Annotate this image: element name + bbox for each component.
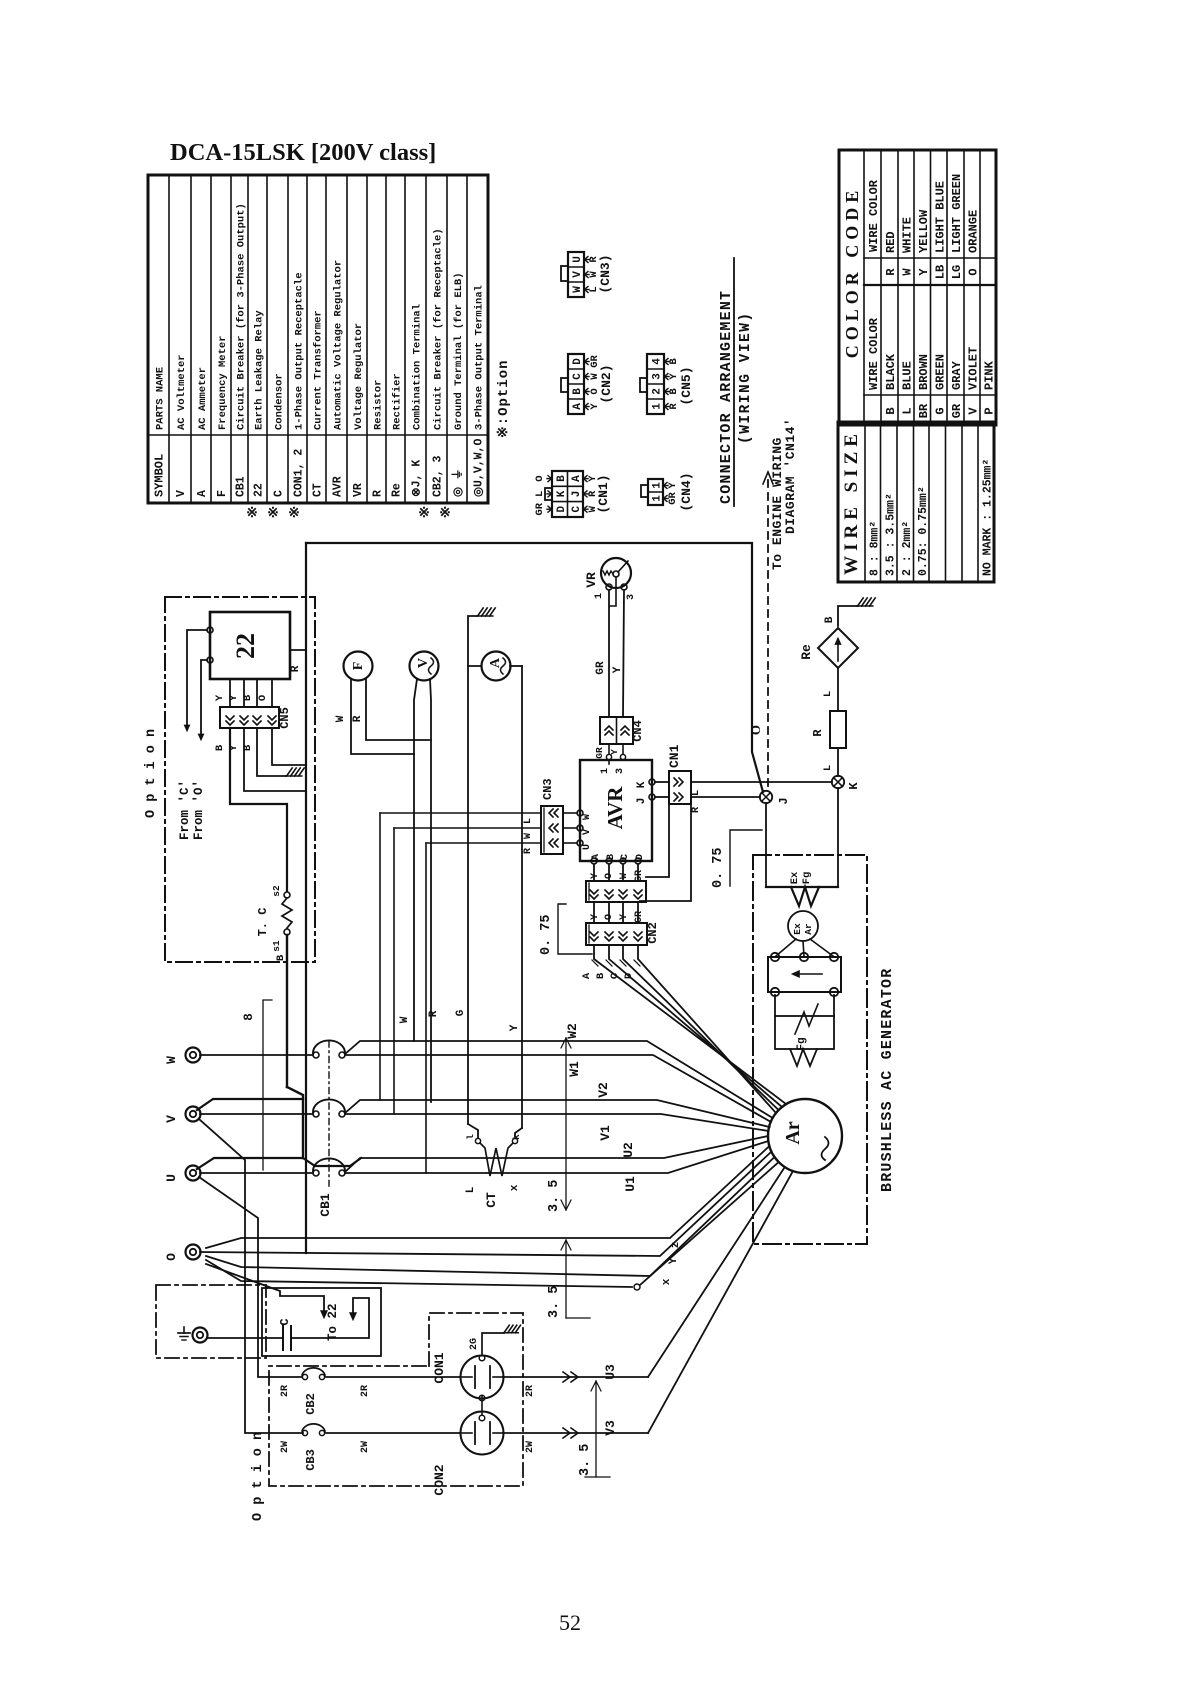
svg-text:CON1: CON1 [432, 1352, 447, 1383]
svg-text:L: L [690, 790, 702, 796]
wire V terminal to CB1 [200, 1113, 313, 1115]
svg-text:O: O [534, 475, 546, 481]
svg-text:Rectifier: Rectifier [392, 373, 404, 430]
terminal K [832, 776, 844, 788]
connector CN2 [586, 923, 647, 945]
to-22 subcircuit box [262, 1288, 381, 1356]
svg-text:WIRE SIZE: WIRE SIZE [841, 429, 862, 575]
rectifier Re [818, 628, 858, 668]
wire CN4 pin3 to K [626, 760, 652, 779]
wire CN5 pin2 to O bus [244, 728, 306, 791]
wire R vertical to CB1 [430, 740, 432, 1102]
svg-text:A: A [572, 403, 584, 410]
wire Y to CT [515, 1128, 522, 1138]
rotating rectifier block [768, 957, 841, 992]
svg-text:F: F [351, 662, 366, 671]
wire junction to U2 lead [303, 1158, 361, 1166]
wire ground terminal to condenser [207, 1337, 283, 1339]
wire U to CB2 [199, 1177, 302, 1377]
svg-text:k: k [511, 1134, 522, 1140]
relay 22 output wires [229, 679, 231, 707]
wire G to CT [468, 1124, 478, 1138]
svg-text:BRUSHLESS AC GENERATOR: BRUSHLESS AC GENERATOR [879, 968, 896, 1192]
stator wires A B C D to generator [594, 945, 786, 1104]
svg-text:4: 4 [652, 358, 664, 365]
connector CN4 (wiring view) [641, 472, 694, 511]
wire B from T.C down [286, 935, 288, 1087]
svg-text:B: B [275, 954, 287, 961]
svg-text:O p t i o n: O p t i o n [251, 1432, 266, 1521]
svg-text:V3: V3 [603, 1420, 618, 1436]
svg-text:Y: Y [214, 694, 226, 701]
svg-text:U2: U2 [621, 1142, 636, 1158]
voltmeter V [410, 652, 439, 681]
wire size table frame [838, 422, 994, 582]
svg-text:※:Option: ※:Option [496, 359, 512, 438]
svg-text:BR: BR [917, 403, 931, 418]
stator lead U1 [345, 1141, 768, 1173]
wire Y neutral [200, 1152, 771, 1256]
svg-text:U: U [164, 1174, 179, 1182]
connector half row above CN2 [586, 881, 646, 902]
svg-text:V: V [164, 1115, 179, 1123]
circuit breaker CB2 [302, 1374, 307, 1379]
exciter field winding Ex Fg [766, 886, 838, 888]
receptacle CON2 [461, 1412, 504, 1455]
svg-text:B: B [556, 475, 568, 482]
svg-text:V: V [416, 658, 431, 668]
svg-text:VR: VR [584, 572, 599, 588]
svg-text:※: ※ [288, 506, 300, 521]
parts table text [153, 203, 486, 497]
svg-text:3: 3 [615, 768, 626, 774]
svg-text:◎U,V,W,O: ◎U,V,W,O [473, 439, 486, 497]
svg-text:Ar: Ar [782, 1121, 804, 1144]
svg-text:LIGHT GREEN: LIGHT GREEN [950, 174, 964, 253]
svg-text:CB1: CB1 [235, 476, 248, 497]
svg-text:A: A [571, 475, 583, 482]
svg-text:AVR: AVR [332, 476, 345, 497]
svg-text:LG: LG [950, 265, 964, 279]
svg-text:W: W [901, 268, 915, 276]
connector CN3 (wiring view) [561, 252, 613, 297]
armature Ar [768, 1099, 842, 1173]
svg-text:Ar: Ar [803, 923, 814, 935]
svg-text:R: R [428, 1010, 440, 1017]
wire K to exciter field [837, 788, 839, 887]
svg-text:J: J [777, 797, 791, 804]
svg-text:RED: RED [884, 231, 898, 253]
svg-text:K: K [636, 781, 648, 788]
size callout 8 [263, 1000, 272, 1170]
svg-text:Ex: Ex [792, 923, 803, 935]
svg-text:B: B [668, 358, 680, 365]
svg-text:0. 75: 0. 75 [539, 914, 554, 955]
wire W to CN3 [394, 827, 541, 829]
svg-text:(CN5): (CN5) [679, 366, 694, 405]
svg-text:x: x [509, 1184, 521, 1191]
svg-text:V: V [967, 407, 981, 415]
wire L from CN1 to terminal K [691, 781, 832, 783]
svg-text:1: 1 [600, 768, 611, 774]
svg-text:Combination Terminal: Combination Terminal [412, 304, 424, 430]
svg-text:YELLOW: YELLOW [917, 209, 931, 253]
svg-text:From 'O': From 'O' [192, 780, 206, 840]
svg-text:Circuit Breaker (for Receptacl: Circuit Breaker (for Receptacle) [433, 228, 445, 430]
svg-text:Resistor: Resistor [373, 380, 385, 430]
svg-text:U1: U1 [623, 1176, 638, 1192]
voltmeter V leads [414, 679, 417, 754]
svg-text:R: R [884, 268, 898, 276]
color code table text [842, 174, 997, 418]
svg-text:(CN3): (CN3) [598, 254, 613, 293]
field winding Fg [774, 995, 776, 1016]
color code table frame [839, 150, 996, 425]
svg-text:2R: 2R [525, 1385, 536, 1397]
stator lead W1 [345, 1055, 771, 1122]
svg-text:R: R [523, 848, 534, 854]
size callout 0.75 at CN2 [558, 904, 592, 954]
exciter armature Ex Ar [788, 911, 818, 941]
svg-text:D: D [635, 854, 646, 860]
svg-text:2R: 2R [360, 1385, 371, 1397]
connector CN4 [600, 717, 633, 744]
wire R to K [837, 748, 839, 776]
current transformer CT [475, 1138, 480, 1143]
svg-text:R: R [290, 665, 302, 672]
wire CON2 output V3 [503, 1432, 648, 1434]
wire O bus top [306, 543, 763, 792]
wire CN1 C branch [646, 804, 669, 877]
svg-text:W: W [164, 1056, 179, 1064]
svg-text:◎ ⏚: ◎ ⏚ [451, 469, 465, 497]
svg-text:V: V [175, 490, 188, 497]
svg-text:GR: GR [634, 911, 645, 923]
svg-text:NO MARK : 1.25mm²: NO MARK : 1.25mm² [982, 459, 995, 576]
wire CN1 D branch [640, 804, 691, 901]
wire R to CN3 [426, 842, 541, 844]
svg-text:⊗J, K: ⊗J, K [411, 460, 424, 497]
connector CN1 (wiring view) [534, 471, 611, 517]
svg-text:D: D [623, 973, 635, 979]
circuit breaker CB3 [302, 1430, 307, 1435]
wire Re to R [837, 668, 839, 711]
svg-text:3. 5: 3. 5 [578, 1444, 593, 1476]
svg-text:CON2: CON2 [432, 1464, 447, 1495]
svg-text:CT: CT [484, 1192, 499, 1208]
svg-text:(CN1): (CN1) [596, 474, 611, 513]
svg-text:B: B [214, 744, 226, 751]
svg-text:Fg: Fg [801, 872, 813, 885]
connector CN3 on AVR [541, 806, 563, 854]
svg-text:GR: GR [595, 661, 607, 675]
svg-text:PINK: PINK [983, 360, 997, 390]
option box (earth leakage relay) [165, 597, 315, 962]
option box (ground terminal) [156, 1285, 266, 1358]
svg-text:V2: V2 [596, 1082, 611, 1098]
svg-text:W: W [582, 814, 593, 820]
svg-text:Ground Terminal (for ELB): Ground Terminal (for ELB) [453, 272, 465, 430]
svg-text:Y: Y [667, 482, 679, 489]
wire R from relay 22 [290, 649, 306, 651]
svg-text:3. 5: 3. 5 [547, 1180, 562, 1212]
wire 2G to ground [482, 1333, 504, 1355]
svg-text:CN1: CN1 [667, 744, 682, 768]
svg-text:J: J [636, 798, 648, 805]
svg-text:L: L [901, 407, 915, 414]
svg-text:GR: GR [534, 502, 546, 515]
svg-text:AC Voltmeter: AC Voltmeter [176, 354, 188, 430]
svg-text:C: C [609, 972, 621, 979]
svg-text:W: W [572, 286, 584, 293]
thermal contact T.C [284, 892, 290, 898]
svg-text:1-Phase Output Receptacle: 1-Phase Output Receptacle [294, 272, 306, 430]
svg-text:2W: 2W [280, 1441, 291, 1453]
svg-text:Y: Y [619, 914, 630, 920]
svg-text:J: J [571, 491, 583, 498]
wire W from meter F [351, 679, 414, 754]
relay 22 input pins [207, 627, 213, 633]
svg-text:C: C [273, 490, 286, 497]
wire O neutral with connector [206, 1260, 632, 1287]
svg-text:Current Transformer: Current Transformer [313, 310, 325, 430]
wire size table text [841, 429, 995, 576]
wire U terminal to CB1 [200, 1172, 313, 1174]
stator lead W2 [345, 1041, 773, 1118]
svg-text:Y: Y [612, 666, 624, 673]
svg-text:T. C: T. C [256, 908, 270, 937]
svg-text:W2: W2 [565, 1023, 580, 1039]
svg-text:Automatic Voltage Regulator: Automatic Voltage Regulator [333, 260, 345, 430]
ammeter leads [467, 666, 469, 1124]
svg-text:3-Phase Output Terminal: 3-Phase Output Terminal [474, 285, 486, 430]
svg-text:(CN2): (CN2) [599, 364, 614, 403]
svg-text:D: D [556, 506, 568, 513]
svg-text:Fg: Fg [796, 1037, 808, 1050]
svg-text:GREEN: GREEN [933, 354, 947, 390]
svg-text:l: l [465, 1134, 476, 1140]
svg-text:CB3: CB3 [304, 1449, 318, 1471]
wires CN3 to AVR [563, 812, 577, 814]
svg-text:V: V [572, 271, 584, 278]
svg-text:※: ※ [246, 506, 258, 521]
svg-text:O p t i o n: O p t i o n [144, 729, 159, 818]
resistor R [830, 711, 846, 748]
wire L to CN3 [380, 812, 541, 814]
svg-text:3: 3 [652, 373, 664, 380]
svg-text:※: ※ [418, 506, 430, 521]
svg-text:s1: s1 [271, 940, 282, 952]
wire V terminal upper branch [197, 1099, 303, 1110]
connector CN5 (wiring view) [640, 354, 694, 414]
AVR pins W V U [577, 810, 583, 816]
svg-text:R: R [352, 715, 364, 722]
svg-text:L: L [523, 818, 534, 824]
wire V to CB3 [199, 1119, 303, 1433]
svg-text:F: F [216, 490, 229, 497]
svg-text:ORANGE: ORANGE [967, 210, 981, 253]
svg-text:BROWN: BROWN [917, 354, 931, 390]
svg-text:D: D [572, 358, 584, 365]
svg-text:BLUE: BLUE [901, 361, 915, 390]
svg-text:A: A [196, 490, 209, 497]
ammeter A [482, 652, 511, 681]
svg-text:CB1: CB1 [318, 1193, 333, 1217]
AVR pins K J [649, 779, 655, 785]
svg-text:1: 1 [652, 403, 664, 410]
connector CN2 (wiring view) [561, 354, 614, 414]
svg-text:K: K [847, 782, 861, 790]
size callout 3.5 receptacles [595, 1381, 597, 1477]
wire CB2 to CON1 [325, 1376, 460, 1378]
svg-text:B: B [242, 694, 254, 701]
wiper wire VR [610, 577, 616, 606]
wire U terminal upper branch [197, 1158, 302, 1169]
wire GR from VR to CN4 [608, 590, 610, 717]
dashed wire to engine diagram CN14 [767, 480, 769, 788]
svg-text:VR: VR [352, 483, 365, 497]
svg-text:W: W [335, 715, 347, 722]
svg-text:Y: Y [228, 694, 240, 701]
wire R from CN1 to terminal J [691, 796, 760, 798]
link CON1 to CON2 [479, 1395, 485, 1401]
stator lead V2 [345, 1100, 770, 1127]
svg-text:L: L [822, 765, 834, 771]
svg-text:CON1, 2: CON1, 2 [293, 449, 306, 497]
wire CON1 output U3 [503, 1376, 648, 1378]
svg-text:22: 22 [253, 483, 266, 497]
svg-text:52: 52 [559, 1610, 581, 1635]
svg-text:U3: U3 [603, 1364, 618, 1380]
svg-text:CB2: CB2 [304, 1393, 318, 1415]
svg-text:2W: 2W [360, 1441, 371, 1453]
option marks under parts table [246, 506, 451, 521]
wire J to exciter field [765, 803, 767, 887]
AVR pins A B C D [591, 858, 597, 864]
svg-text:G: G [933, 407, 947, 414]
svg-text:Y: Y [509, 1024, 521, 1031]
wire Y from VR to CN4 [623, 590, 624, 717]
frequency meter F [344, 652, 373, 681]
svg-text:LIGHT BLUE: LIGHT BLUE [933, 181, 947, 253]
svg-text:2G: 2G [469, 1338, 480, 1350]
svg-text:L: L [822, 691, 834, 697]
size callout 0.75 at exciter [730, 830, 762, 886]
svg-text:0. 75: 0. 75 [711, 847, 726, 888]
svg-text:WIRE COLOR: WIRE COLOR [867, 317, 881, 390]
svg-text:Y: Y [590, 873, 601, 879]
ground near CN5 [287, 768, 293, 776]
svg-text:C: C [278, 1318, 292, 1325]
svg-text:3: 3 [626, 594, 637, 600]
size callout 3.5 stator leads [565, 1038, 567, 1210]
wire X neutral [206, 1157, 775, 1276]
svg-text:VIOLET: VIOLET [967, 347, 981, 390]
svg-text:Circuit Breaker (for 3-Phase O: Circuit Breaker (for 3-Phase Output) [236, 203, 248, 430]
svg-text:B: B [595, 972, 607, 979]
parts table frame [148, 175, 488, 503]
svg-text:G: G [455, 1009, 467, 1016]
svg-text:C: C [620, 854, 631, 860]
svg-text:3. 5: 3. 5 [547, 1286, 562, 1318]
wire W terminal to CB1 [200, 1054, 313, 1056]
svg-text:U: U [572, 256, 584, 263]
svg-text:B: B [824, 616, 836, 623]
wire W vertical to CB1 [413, 754, 415, 1041]
svg-text:V: V [582, 829, 593, 835]
ammeter ground branch [468, 616, 481, 666]
terminal W [186, 1048, 201, 1063]
svg-text:Earth Leakage Relay: Earth Leakage Relay [254, 310, 266, 430]
svg-text:2W: 2W [525, 1441, 536, 1453]
svg-text:O: O [967, 268, 981, 275]
terminal J [760, 791, 772, 803]
svg-text:DCA-15LSK [200V class]: DCA-15LSK [200V class] [170, 139, 436, 166]
svg-text:CN2: CN2 [646, 922, 660, 944]
size callout 3.5 neutral [565, 1240, 567, 1318]
wires AVR J K to CN1 [655, 781, 669, 783]
svg-text:CONNECTOR ARRANGEMENT: CONNECTOR ARRANGEMENT [718, 290, 735, 504]
stator lead V1 [345, 1114, 769, 1131]
svg-text:L: L [465, 1186, 477, 1193]
svg-text:22: 22 [231, 633, 260, 659]
circuit breaker CB1 [313, 1040, 345, 1186]
svg-text:R: R [372, 490, 385, 497]
svg-text:8 : 8mm²: 8 : 8mm² [868, 521, 881, 576]
svg-text:CT: CT [312, 483, 325, 497]
svg-text:(WIRING VIEW): (WIRING VIEW) [738, 311, 754, 444]
svg-text:8: 8 [242, 1013, 256, 1021]
svg-text:WIRE COLOR: WIRE COLOR [867, 179, 881, 252]
svg-text:GR: GR [594, 747, 605, 759]
svg-text:2: 2 [652, 388, 664, 395]
svg-text:COLOR CODE: COLOR CODE [842, 186, 862, 359]
svg-text:W1: W1 [567, 1061, 582, 1077]
wire CB3 to CON2 [325, 1432, 460, 1434]
svg-text:2R: 2R [280, 1385, 291, 1397]
wire from C to relay 22 [187, 630, 207, 726]
svg-text:CN4: CN4 [631, 720, 645, 742]
svg-text:From 'C': From 'C' [178, 780, 192, 840]
svg-text:Voltage Regulator: Voltage Regulator [353, 323, 365, 430]
svg-text:W: W [619, 873, 630, 879]
svg-text:To 22: To 22 [326, 1303, 340, 1341]
svg-text:O: O [164, 1253, 179, 1261]
stator lead U2 [345, 1136, 768, 1172]
terminal O [186, 1245, 201, 1260]
wire O bus left vertical [305, 543, 307, 1253]
svg-text:Condensor: Condensor [274, 373, 286, 430]
svg-text:C: C [572, 373, 584, 380]
svg-text:1: 1 [652, 482, 664, 489]
receptacle CON1 [461, 1356, 504, 1399]
svg-text:PARTS NAME: PARTS NAME [155, 367, 167, 430]
svg-text:CN3: CN3 [541, 778, 555, 800]
svg-text:O: O [748, 725, 763, 735]
terminal U [186, 1166, 201, 1181]
svg-text:CB2, 3: CB2, 3 [432, 455, 445, 497]
svg-text:2 : 2mm²: 2 : 2mm² [901, 521, 914, 576]
svg-text:Re: Re [391, 483, 404, 497]
connector CN4 pins 1 and 3 [608, 744, 610, 754]
condenser C [282, 1326, 284, 1350]
svg-text:DIAGRAM 'CN14': DIAGRAM 'CN14' [783, 418, 798, 534]
svg-text:W: W [523, 833, 534, 839]
svg-text:Ex: Ex [789, 871, 801, 884]
svg-text:B: B [884, 407, 898, 414]
svg-text:1: 1 [652, 495, 664, 502]
svg-text:LB: LB [933, 265, 947, 279]
